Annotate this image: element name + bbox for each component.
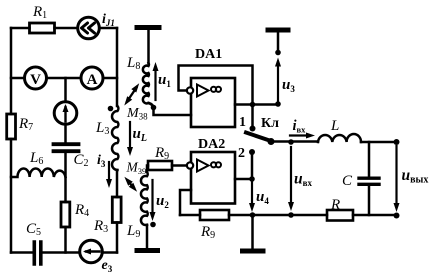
wire to switch contact 1 bbox=[251, 105, 254, 126]
capacitor C branch bbox=[368, 142, 371, 215]
svg-text:2: 2 bbox=[238, 146, 245, 161]
terminal T-bar u3 bbox=[268, 28, 288, 33]
inductor L bbox=[318, 134, 361, 142]
svg-text:uвых: uвых bbox=[402, 167, 429, 186]
current source J1 (circle with double chevron) bbox=[78, 17, 100, 39]
resistor R3 bbox=[112, 197, 121, 223]
wire L to terminal bbox=[361, 141, 394, 144]
switch Кл lever bbox=[246, 133, 271, 142]
svg-text:Кл: Кл bbox=[261, 116, 279, 131]
capacitor C2 bbox=[54, 144, 79, 151]
resistor R9 input bbox=[148, 161, 172, 170]
switch contact 1 bbox=[250, 126, 256, 132]
svg-text:C5: C5 bbox=[26, 221, 41, 238]
svg-text:V: V bbox=[30, 72, 41, 88]
source e3 (circle with left arrow) bbox=[80, 240, 103, 263]
resistor R bbox=[327, 210, 353, 221]
inductor L6 bbox=[11, 169, 66, 178]
resistor R4 bbox=[61, 202, 70, 227]
svg-text:u3: u3 bbox=[282, 77, 295, 94]
wire V/A row bbox=[11, 77, 117, 80]
svg-text:R9: R9 bbox=[200, 224, 215, 241]
terminal node top right bbox=[394, 139, 400, 145]
node output junction u3 bbox=[275, 101, 281, 107]
wire left rail bbox=[10, 28, 13, 253]
svg-text:iJ1: iJ1 bbox=[102, 12, 115, 28]
wire L3 to R3 and R3 to bottom bbox=[116, 170, 119, 253]
svg-text:iвх: iвх bbox=[293, 118, 307, 135]
svg-text:R3: R3 bbox=[93, 218, 108, 235]
voltage arrow u2 bbox=[151, 180, 153, 215]
svg-text:A: A bbox=[87, 72, 98, 88]
current arrow i3 bbox=[108, 162, 110, 182]
wire bottom left bbox=[11, 251, 117, 254]
resistor R7 bbox=[7, 114, 16, 139]
voltage arrow uL bbox=[129, 122, 131, 150]
voltage arrow u3 branch bbox=[277, 64, 279, 104]
terminal T-bar above L8 bbox=[137, 25, 159, 30]
svg-text:u4: u4 bbox=[256, 189, 269, 206]
wire L8 bottom to DA1 input bbox=[149, 103, 192, 115]
svg-text:u1: u1 bbox=[158, 72, 171, 89]
mutual coupling M38 arrow bbox=[127, 88, 137, 102]
DA1 output wire bbox=[235, 103, 278, 106]
terminal node bottom right bbox=[394, 213, 400, 219]
op-amp DA1 bbox=[191, 78, 235, 127]
node polarity dot L3 bbox=[108, 106, 114, 112]
ground below L9 bbox=[146, 225, 149, 248]
svg-text:DA2: DA2 bbox=[198, 137, 225, 152]
resistor R9 feedback bbox=[200, 210, 229, 220]
resistor R1 bbox=[30, 23, 55, 33]
wire switch pole to L bbox=[274, 140, 318, 143]
bottom common wire bbox=[180, 214, 394, 217]
svg-text:M39: M39 bbox=[126, 160, 147, 177]
DA2 non-inverting input wire bbox=[180, 190, 191, 215]
svg-text:L9: L9 bbox=[126, 223, 140, 240]
node polarity dot L8 bbox=[151, 105, 157, 111]
node DA2 output bbox=[249, 176, 255, 182]
svg-text:u2: u2 bbox=[156, 193, 169, 210]
node u_vx bottom bbox=[288, 212, 294, 218]
svg-text:uвх: uвх bbox=[294, 171, 312, 189]
svg-text:uL: uL bbox=[133, 126, 147, 144]
svg-text:R9: R9 bbox=[154, 145, 169, 162]
svg-text:DA1: DA1 bbox=[195, 47, 222, 62]
op-amp DA2 bbox=[191, 152, 235, 204]
DA1 inverting input circle bbox=[187, 87, 193, 93]
svg-text:R4: R4 bbox=[74, 202, 89, 219]
node ground junction bbox=[250, 212, 256, 218]
inductor L8 bbox=[143, 63, 149, 103]
DA2 inverting input circle bbox=[187, 162, 193, 168]
voltmeter V bbox=[25, 67, 47, 89]
svg-text:C: C bbox=[342, 173, 353, 189]
wire contact 2 to DA2 output bbox=[251, 152, 254, 179]
voltage arrow u1 bbox=[154, 68, 156, 100]
voltage arrow u4 bbox=[251, 179, 253, 207]
ammeter A bbox=[81, 67, 103, 89]
DA2 output wire bbox=[235, 178, 252, 181]
svg-text:L6: L6 bbox=[29, 150, 43, 167]
svg-text:L: L bbox=[330, 118, 339, 134]
svg-text:C2: C2 bbox=[74, 152, 89, 169]
svg-text:M38: M38 bbox=[126, 106, 148, 122]
node DA1 feedback junction bbox=[250, 102, 256, 108]
svg-text:R1: R1 bbox=[32, 4, 47, 21]
svg-text:i3: i3 bbox=[97, 153, 106, 169]
wire right rail of meter loop down to L3 bbox=[116, 28, 119, 106]
wire top bbox=[11, 27, 117, 30]
wire L9 top to R9 to DA2 bbox=[147, 166, 187, 173]
switch contact 2 bbox=[249, 149, 255, 155]
svg-text:R7: R7 bbox=[18, 116, 33, 133]
svg-text:L8: L8 bbox=[126, 55, 140, 72]
voltage arrow u_vyh bbox=[395, 146, 397, 206]
svg-text:L3: L3 bbox=[95, 120, 109, 137]
svg-text:e3: e3 bbox=[102, 258, 113, 274]
ground right bbox=[251, 215, 254, 249]
wire middle branch bbox=[64, 78, 67, 253]
capacitor C5 bbox=[34, 242, 41, 264]
node polarity dot L9 / u2 bbox=[150, 222, 156, 228]
inductor L3 bbox=[112, 106, 118, 170]
current source J (circle with up arrow) bbox=[54, 102, 77, 125]
svg-text:R: R bbox=[330, 197, 340, 213]
svg-text:1: 1 bbox=[239, 115, 246, 130]
node u_vx top bbox=[288, 139, 294, 145]
DA1 feedback wire bbox=[179, 66, 253, 105]
voltage arrow u_vx bbox=[290, 147, 292, 205]
mutual coupling M39 arrow bbox=[128, 181, 134, 188]
inductor L9 bbox=[141, 172, 148, 225]
current arrow i_vx bbox=[290, 134, 309, 136]
